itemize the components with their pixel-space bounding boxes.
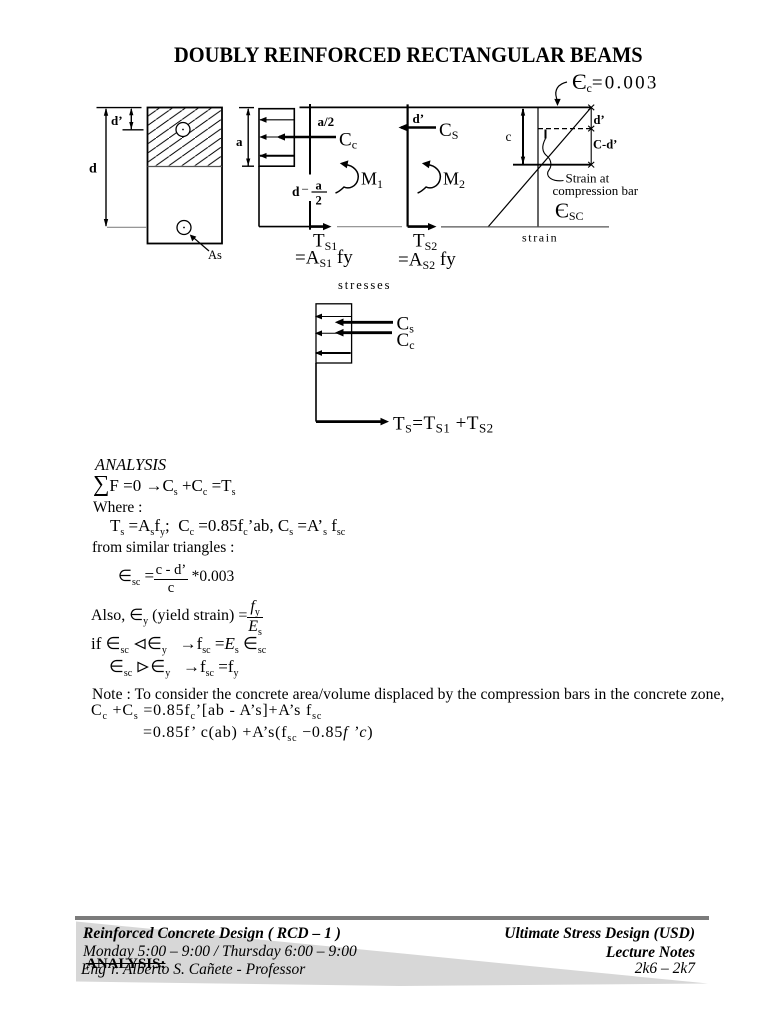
d' label (fig2) — [413, 111, 425, 126]
Ts resultant arrow — [316, 418, 389, 426]
right dimension line — [588, 105, 594, 168]
svg-text:a: a — [316, 179, 323, 193]
svg-text:M2: M2 — [443, 169, 465, 192]
As leader arrow — [190, 235, 209, 252]
svg-text:c: c — [506, 129, 512, 144]
svg-text:d’: d’ — [413, 111, 425, 126]
bottom chord fig1 — [259, 166, 310, 226]
Cs label (combined) — [397, 314, 415, 336]
svg-text:2: 2 — [316, 194, 322, 208]
eq also yield strain — [91, 599, 263, 636]
beam section outline — [148, 108, 223, 244]
svg-text:−: − — [302, 182, 309, 197]
strain diagonal — [488, 107, 591, 227]
c-d' label — [593, 138, 617, 152]
footer rule — [75, 916, 709, 920]
top chord line — [300, 106, 592, 108]
moment arc M2 — [418, 160, 441, 193]
footer course — [83, 925, 341, 943]
where — [93, 499, 142, 517]
connector line fig1-fig2 — [337, 226, 402, 228]
svg-text:a/2: a/2 — [318, 114, 335, 129]
footer lecture notes — [606, 944, 695, 962]
stress block rect — [259, 109, 294, 167]
dimension d' (section) — [123, 108, 144, 130]
lever line fig2 — [407, 104, 409, 226]
dimension a — [239, 108, 254, 167]
eq esc fraction — [118, 563, 234, 596]
dimension c — [521, 108, 525, 165]
Ts1 label — [313, 231, 337, 254]
svg-text:compression bar: compression bar — [553, 183, 639, 198]
ec=0.003 label — [572, 69, 659, 95]
a/2 label — [318, 114, 335, 129]
Cs label — [439, 120, 458, 142]
strain caption — [522, 231, 558, 245]
Cs arrow — [399, 124, 437, 131]
footer year — [635, 960, 695, 978]
Ts2 label — [413, 231, 437, 254]
d' label (section) — [111, 113, 123, 128]
eq if greater — [109, 657, 238, 677]
Cc resultant arrow (combined) — [335, 329, 392, 337]
lever line fig1 — [309, 104, 311, 230]
svg-text:strain: strain — [522, 231, 558, 245]
svg-text:d’: d’ — [594, 113, 605, 127]
Ts1 arrow — [310, 223, 332, 230]
eq expanded — [143, 724, 373, 742]
strain tick at compression bar — [545, 130, 547, 139]
Ts label — [393, 413, 494, 436]
eq Ts As fy — [110, 516, 345, 536]
stresses caption — [338, 278, 391, 292]
combined web line — [315, 363, 317, 422]
Cc label (combined) — [397, 330, 415, 352]
Cc label — [339, 130, 357, 152]
title — [174, 42, 643, 68]
svg-text:CS: CS — [439, 120, 458, 142]
combined block stress lines — [315, 314, 352, 356]
svg-text:d: d — [89, 162, 97, 177]
svg-text:stresses: stresses — [338, 278, 391, 292]
lever arm label d-a/2 — [292, 179, 327, 208]
Ts2 arrow — [408, 223, 437, 230]
leader to strain label — [543, 139, 564, 181]
=As2 fy label — [398, 249, 456, 272]
=As1 fy label — [295, 247, 353, 270]
dashed compression bar level — [538, 128, 591, 130]
stress block arrows — [259, 117, 294, 159]
c label — [506, 129, 512, 144]
Cc resultant arrow — [277, 133, 337, 140]
strain axis horizontal — [441, 226, 609, 228]
hatch boundary line — [148, 166, 223, 168]
compression bar circle — [176, 123, 190, 137]
svg-text:C-d’: C-d’ — [593, 138, 617, 152]
svg-text:TS=TS1 +TS2: TS=TS1 +TS2 — [393, 413, 494, 436]
eq Cc + Cs — [91, 702, 322, 720]
svg-text:Єc=0.003: Єc=0.003 — [572, 69, 659, 95]
d label — [89, 162, 97, 177]
svg-text:d’: d’ — [111, 113, 123, 128]
d bottom extension line — [107, 226, 147, 228]
footer wedge — [0, 900, 768, 1024]
tension bar circle — [177, 221, 191, 235]
svg-text:ЄSC: ЄSC — [555, 199, 584, 224]
compression zone hatch — [148, 108, 221, 166]
svg-text:As: As — [208, 248, 222, 262]
As label — [208, 248, 222, 262]
strain vertical axis — [537, 107, 539, 226]
leader from ec label — [554, 82, 567, 106]
M1 label — [361, 169, 383, 192]
footer professor — [81, 961, 305, 979]
moment arc M1 — [336, 160, 359, 193]
d' label (strain) — [594, 113, 605, 127]
svg-text:d: d — [292, 184, 300, 199]
eq sum F — [93, 471, 235, 497]
a label — [236, 134, 243, 149]
svg-text:a: a — [236, 134, 243, 149]
combined stress block — [316, 304, 352, 363]
Cs resultant arrow (combined) — [335, 319, 393, 327]
svg-text:Cc: Cc — [339, 130, 357, 152]
neutral axis line — [513, 164, 591, 166]
note line — [92, 686, 724, 704]
footer analysis strikethrough — [86, 956, 165, 973]
esc label — [555, 199, 584, 224]
footer usd — [504, 925, 695, 943]
footer schedule — [83, 943, 357, 961]
strain at compression bar label — [553, 171, 639, 199]
from similar triangles — [92, 539, 234, 557]
M2 label — [443, 169, 465, 192]
dimension d — [97, 108, 142, 227]
analysis heading — [95, 455, 166, 475]
eq if less — [91, 634, 266, 654]
svg-text:M1: M1 — [361, 169, 383, 192]
